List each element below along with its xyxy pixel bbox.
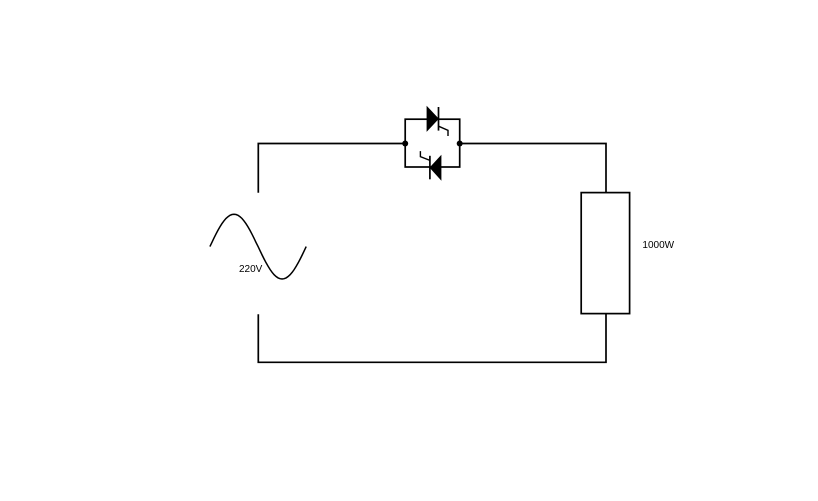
node right junction dot — [457, 141, 463, 147]
AC source V1 sine wave — [210, 214, 306, 279]
wire top-right horizontal and right vertical upper — [460, 144, 606, 193]
thyristor SCR1 cathode bar — [438, 107, 440, 131]
thyristor SCR2 anode triangle — [430, 156, 441, 179]
thyristor SCR1 anode triangle — [427, 107, 438, 131]
wire left vertical upper and top-left horizontal — [258, 144, 405, 193]
svg-text:1000W: 1000W — [642, 240, 674, 251]
wire left vertical lower, bottom horizontal, right vertical lower — [258, 314, 606, 363]
node left junction dot — [402, 141, 408, 147]
thyristor SCR1 gate — [439, 126, 449, 136]
thyristor module box — [405, 119, 460, 167]
resistor load 1000W — [581, 193, 629, 314]
thyristor SCR2 gate — [420, 151, 430, 160]
svg-text:220V: 220V — [239, 264, 263, 275]
thyristor SCR2 cathode bar — [429, 156, 431, 180]
